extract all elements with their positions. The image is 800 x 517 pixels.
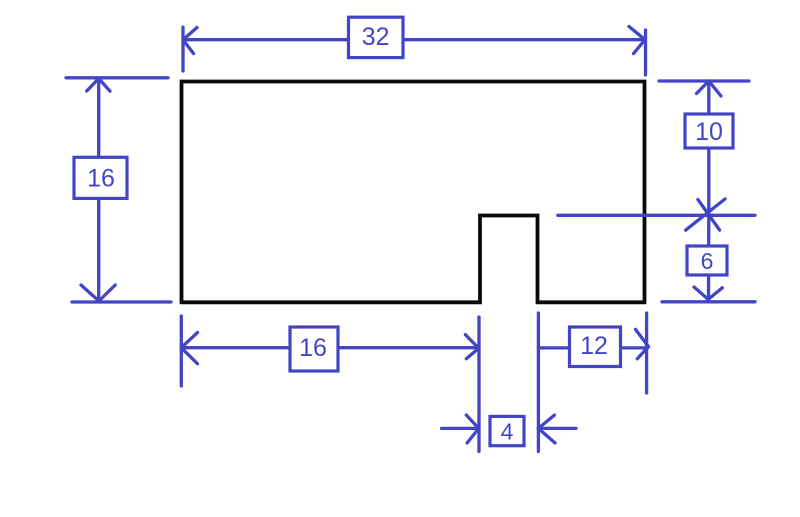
svg-text:16: 16 <box>299 334 327 362</box>
top dim 32: right arrowhead <box>629 27 645 54</box>
crossing arrowheads at middle (10/6 junction) <box>686 199 725 230</box>
bottom dim 4: left arrowhead (pointing right) <box>466 415 478 443</box>
right dim 6: dimension line <box>707 215 711 299</box>
bottom dim 4: left leader line <box>442 427 479 430</box>
bottom right extension line <box>645 313 648 393</box>
label box 32 <box>349 17 404 57</box>
label box 16 (bottom) <box>290 327 338 371</box>
svg-text:12: 12 <box>580 332 608 360</box>
notch left extension line <box>477 317 480 452</box>
label box 6 <box>687 246 727 275</box>
bottom dim 12: right arrowhead <box>636 329 649 358</box>
right side: top extension line <box>659 79 749 82</box>
top dim 32: left arrowhead <box>183 28 197 54</box>
bottom dim 16: left extension line <box>180 316 183 386</box>
left dim 16: bottom extension line <box>72 300 171 303</box>
label box 16 (left) <box>74 157 127 198</box>
bottom dim 12: dimension line <box>538 346 647 349</box>
label box 4 <box>490 416 524 445</box>
svg-text:6: 6 <box>701 248 714 274</box>
label box 12 <box>570 327 621 367</box>
part outline (notched plate) <box>182 82 645 303</box>
svg-text:16: 16 <box>87 165 115 193</box>
svg-text:32: 32 <box>362 23 390 51</box>
left dim 16: bottom arrowhead <box>81 285 115 301</box>
right dim 10: dimension line <box>707 81 710 215</box>
top dim 32: left extension line <box>181 27 184 71</box>
right dim 6: bottom arrowhead <box>694 287 722 299</box>
bottom dim 16: dimension line <box>181 346 479 349</box>
svg-text:4: 4 <box>501 419 514 445</box>
svg-text:10: 10 <box>695 118 723 146</box>
right dim 10: top arrowhead <box>697 81 722 96</box>
left dim 16: top arrowhead <box>87 79 110 92</box>
bottom dim 16: right arrowhead <box>465 335 478 359</box>
left dim 16: top extension line <box>66 76 168 79</box>
right side: bottom extension line <box>662 300 755 303</box>
left dim 16: dimension line <box>97 79 100 301</box>
label box 10 <box>685 114 733 148</box>
bottom dim 4: right leader line <box>538 427 576 430</box>
bottom dim 4: right arrowhead (pointing left) <box>538 415 555 443</box>
top dim 32: dimension line <box>183 38 645 41</box>
bottom dim 16: left arrowhead <box>181 333 197 364</box>
notch right extension line <box>537 313 540 452</box>
right side: middle extension line from notch shoulder <box>558 214 755 217</box>
top dim 32: right extension line <box>644 30 647 75</box>
